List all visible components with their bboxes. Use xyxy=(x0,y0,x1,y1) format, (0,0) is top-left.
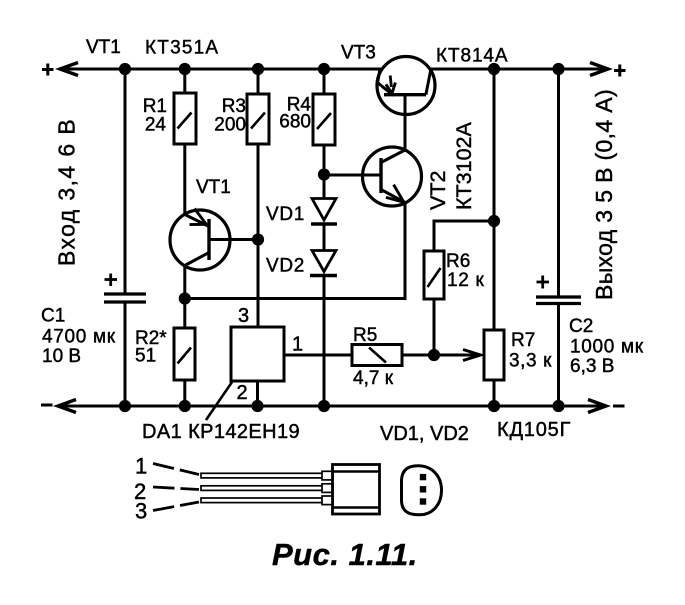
node minus (output minus sign) xyxy=(613,405,625,408)
junction node rail/diode line bottom xyxy=(319,401,328,410)
transistor package body (side view) xyxy=(333,465,380,515)
svg-text:Вход 3,4 6 В: Вход 3,4 6 В xyxy=(54,118,80,266)
resistor R7 (adjustable) xyxy=(484,330,504,380)
junction node rail/R4 top xyxy=(319,64,328,73)
pinout lead 2 (middle pin of package) xyxy=(201,484,333,493)
label pin 3 xyxy=(238,305,249,327)
wire bottom rail (common minus rail) xyxy=(58,405,606,408)
wire top rail right (output + rail) xyxy=(429,68,608,71)
pinout lead number 2 xyxy=(134,479,146,504)
svg-text:VT1: VT1 xyxy=(86,37,121,58)
pinout lead number 3 xyxy=(135,499,147,524)
wire VT2 base to diode line xyxy=(324,174,381,177)
resistor R2 xyxy=(174,328,195,380)
junction node R4 / VT2 base xyxy=(319,170,328,179)
capacitor C1 xyxy=(104,274,146,303)
wire R3 down to DA1 pin 3 xyxy=(257,144,260,327)
pinout leader dash 1 xyxy=(153,464,199,475)
svg-text:3: 3 xyxy=(135,499,147,524)
label output voltage (rotated) xyxy=(591,89,617,300)
label pin 2 xyxy=(237,382,248,404)
label VD2 xyxy=(266,256,305,277)
label DA1 KR142EN19 xyxy=(142,421,300,443)
label R6 12 k xyxy=(446,251,485,291)
wire R6 to R5 node xyxy=(433,299,436,355)
wire R7 to bottom rail xyxy=(493,380,496,406)
label R2* 51 xyxy=(135,328,167,367)
resistor R4 xyxy=(313,94,335,145)
svg-text:1000 мк: 1000 мк xyxy=(570,337,644,358)
wire VT1 collector down to R2 xyxy=(183,265,186,328)
junction node rail/R3 top xyxy=(253,64,262,73)
pinout leader dash 3 xyxy=(153,502,199,511)
label R3 200 xyxy=(214,96,246,136)
capacitor C2 xyxy=(536,276,581,304)
wire VD2 down to bottom rail xyxy=(323,277,326,407)
svg-text:10 В: 10 В xyxy=(42,346,81,367)
svg-text:VT2: VT2 xyxy=(426,171,450,210)
wiper arrow into R7 xyxy=(463,350,481,361)
transistor VT1 (KT351A, PNP) xyxy=(170,209,230,271)
junction node rail/output line top xyxy=(489,64,498,73)
wire input line lower (C1 to rail) xyxy=(124,304,127,407)
svg-text:6,3 В: 6,3 В xyxy=(570,356,614,377)
transistor VT2 (KT3102A, NPN) xyxy=(363,147,422,206)
svg-text:24: 24 xyxy=(145,115,167,136)
terminal arrow output + xyxy=(590,63,608,76)
node + (input plus sign) xyxy=(42,64,54,76)
wire VT2 emitter down and left to VT1 collector node xyxy=(185,203,405,299)
label VD1, VD2 xyxy=(380,423,469,445)
caption Ris. 1.11. xyxy=(272,537,418,572)
resistor R3 xyxy=(247,94,269,144)
junction node R6 branch / output line xyxy=(489,216,498,225)
label KD105G xyxy=(497,419,571,441)
svg-text:Рис. 1.11.: Рис. 1.11. xyxy=(272,537,418,572)
junction node rail/R1 top xyxy=(180,64,189,73)
pinout lead 3 (bottom pin of package) xyxy=(201,496,333,505)
junction node rail/C2 bottom xyxy=(554,401,563,410)
label C2 value xyxy=(569,316,644,377)
wire R5 to R7 wiper node xyxy=(402,354,478,357)
junction node rail/R7 bottom xyxy=(489,401,498,410)
wire input line upper (rail to C1) xyxy=(124,69,127,293)
svg-text:КД105Г: КД105Г xyxy=(497,419,571,441)
svg-text:2: 2 xyxy=(237,382,248,404)
svg-text:R6: R6 xyxy=(446,251,470,272)
label C1 value xyxy=(41,306,116,368)
junction node rail/pin2 bottom xyxy=(253,401,262,410)
wire R1 branch from rail xyxy=(183,69,186,93)
svg-text:DA1 КР142ЕН19: DA1 КР142ЕН19 xyxy=(142,421,300,443)
junction node R5 / R6 / wiper xyxy=(429,350,438,359)
wire VD1 to VD2 xyxy=(323,225,326,251)
wire C2 line upper xyxy=(557,69,560,296)
svg-text:КТ814А: КТ814А xyxy=(436,46,508,67)
wire R1 to VT1 emitter xyxy=(183,144,186,216)
label VT2 (rotated) xyxy=(426,171,450,210)
label R1 24 xyxy=(143,96,167,136)
node minus (input minus sign) xyxy=(41,404,53,407)
pinout lead number 1 xyxy=(135,454,147,479)
wire DA1 pin 2 to bottom rail xyxy=(256,381,259,406)
label VT1 (top) xyxy=(86,37,121,58)
wire C2 line lower xyxy=(557,305,560,407)
svg-text:VT3: VT3 xyxy=(341,43,376,64)
svg-text:VD1: VD1 xyxy=(266,204,305,225)
label input voltage (rotated) xyxy=(54,118,80,266)
svg-text:C2: C2 xyxy=(569,316,593,337)
svg-text:VD2: VD2 xyxy=(266,256,305,277)
terminal arrow input + xyxy=(60,63,78,76)
wire output line (rail to R7) xyxy=(493,69,496,330)
label pin 1 xyxy=(292,334,303,356)
pinout lead 1 (top pin of package) xyxy=(201,471,333,480)
wire VT1 base to R3 line xyxy=(209,238,258,241)
svg-text:R7: R7 xyxy=(511,330,535,351)
label KT351A (top) xyxy=(145,38,219,59)
label R4 680 xyxy=(279,95,311,133)
svg-text:200: 200 xyxy=(214,115,246,136)
svg-text:3: 3 xyxy=(238,305,249,327)
svg-text:КТ3102А: КТ3102А xyxy=(452,122,476,210)
svg-text:12 к: 12 к xyxy=(447,270,485,291)
diode VD2 xyxy=(310,251,337,276)
svg-text:КТ351А: КТ351А xyxy=(145,38,219,59)
wire top rail left (input + rail) xyxy=(60,68,383,71)
wire R3 branch from rail xyxy=(257,69,260,94)
resistor R1 xyxy=(174,93,196,144)
svg-text:4,7 к: 4,7 к xyxy=(353,368,394,389)
svg-text:VT1: VT1 xyxy=(196,177,231,198)
transistor VT3 (KT814A, PNP pass) xyxy=(377,57,435,115)
diode VD1 xyxy=(311,199,337,225)
wire VT3 base to VT2 collector xyxy=(404,95,407,151)
junction node rail/R2 bottom xyxy=(180,401,189,410)
terminal arrow input minus xyxy=(58,400,76,413)
label VD1 xyxy=(266,204,305,225)
junction node rail/C1 bottom xyxy=(120,401,129,410)
svg-text:1: 1 xyxy=(135,454,147,479)
label KT814A xyxy=(436,46,508,67)
junction node VT1 collector / R2 / VT2 emitter xyxy=(180,294,189,303)
junction node VT1 base / R3 line xyxy=(253,235,262,244)
svg-text:680: 680 xyxy=(279,112,311,133)
svg-text:4700 мк: 4700 мк xyxy=(42,327,116,348)
label R5 4,7 k xyxy=(353,325,394,389)
label VT3 xyxy=(341,43,376,64)
wire DA1 pin 1 to R5 xyxy=(284,354,352,357)
leader line from DA1 label to box xyxy=(206,382,232,420)
diode package (bottom view, KD105) xyxy=(402,466,442,515)
terminal arrow output minus xyxy=(588,400,606,413)
label R7 3,3 k xyxy=(509,330,552,372)
svg-text:Выход 3 5 В (0,4 А): Выход 3 5 В (0,4 А) xyxy=(591,89,617,300)
pinout leader dash 2 xyxy=(153,487,199,490)
svg-text:C1: C1 xyxy=(41,306,65,327)
label KT3102A (rotated) xyxy=(452,122,476,210)
junction node rail/C2 top xyxy=(554,64,563,73)
wire R4 branch from rail xyxy=(323,69,326,94)
label VT1 near transistor xyxy=(196,177,231,198)
svg-text:R5: R5 xyxy=(353,325,377,346)
wire R6 branch from output line xyxy=(434,221,494,251)
resistor R6 xyxy=(424,251,444,299)
integrated circuit DA1 box xyxy=(231,327,284,381)
svg-text:3,3 к: 3,3 к xyxy=(509,351,552,372)
junction node rail/C1 top xyxy=(120,64,129,73)
wire R4 to VD1 xyxy=(323,145,326,199)
resistor R5 xyxy=(352,345,402,366)
svg-text:VD1, VD2: VD1, VD2 xyxy=(380,423,469,445)
node + (output plus sign) xyxy=(614,65,626,77)
svg-text:51: 51 xyxy=(135,346,156,367)
svg-text:1: 1 xyxy=(292,334,303,356)
wire R2 to bottom rail xyxy=(183,380,186,406)
